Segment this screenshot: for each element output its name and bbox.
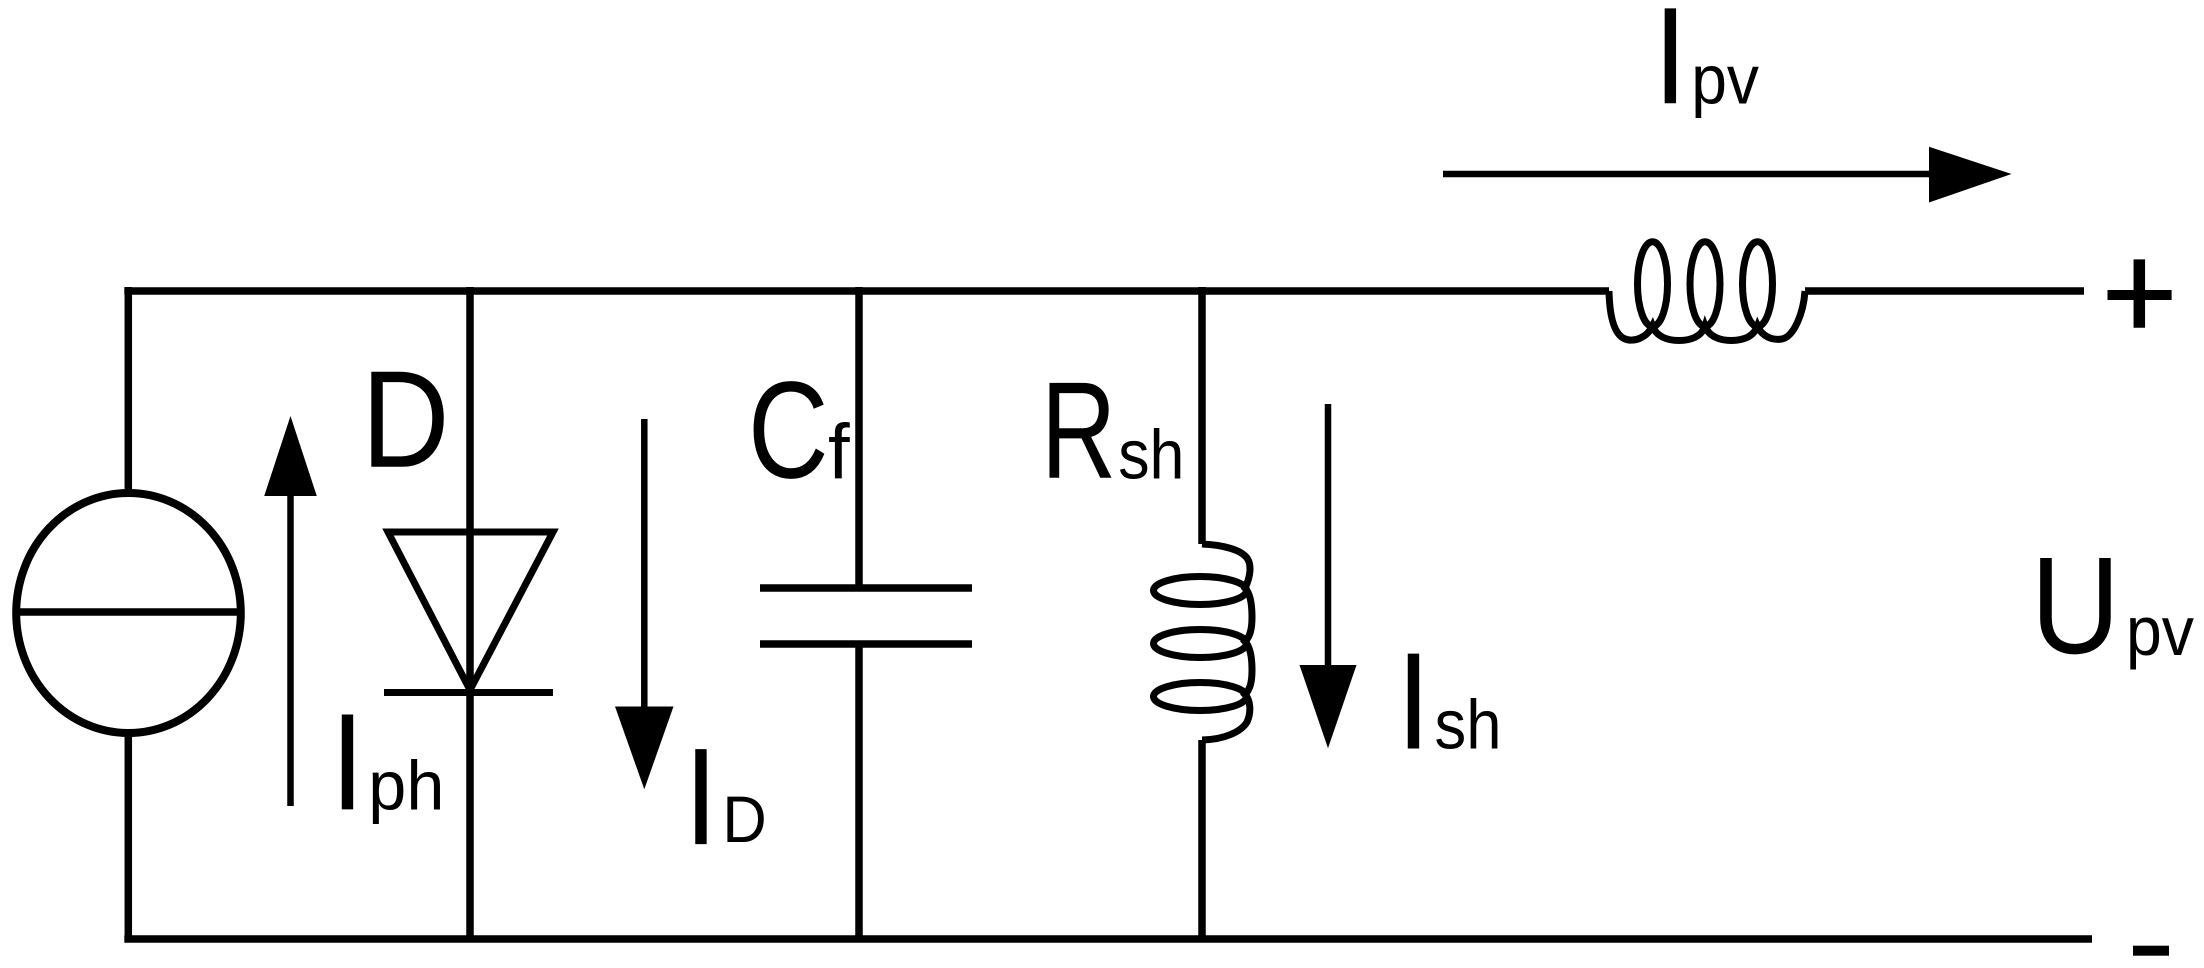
svg-text:D: D <box>722 782 766 857</box>
capacitor Cf top plate <box>760 584 972 592</box>
wire capacitor branch lower <box>855 644 863 939</box>
svg-text:I: I <box>331 684 365 839</box>
svg-text:sh: sh <box>1435 687 1502 765</box>
svg-text:I: I <box>1397 624 1431 779</box>
terminal minus sign <box>2133 946 2169 956</box>
wire capacitor branch upper <box>855 287 863 588</box>
svg-text:U: U <box>2031 528 2121 683</box>
arrow Iph shaft <box>287 494 294 806</box>
wire top rail left segment <box>124 287 1609 295</box>
wire top rail right segment <box>1805 287 2084 295</box>
wire bottom rail <box>124 935 2092 943</box>
label D <box>361 342 449 497</box>
diode D cathode bar <box>384 689 553 696</box>
label Ish <box>1397 624 1431 779</box>
current source Iph (circle with chord) <box>16 493 241 733</box>
label Iph <box>331 684 365 839</box>
label Ipv <box>1653 0 1687 133</box>
wire Rsh branch lower <box>1198 740 1206 939</box>
svg-text:I: I <box>684 719 718 874</box>
current source chord <box>13 608 244 616</box>
svg-text:f: f <box>828 408 850 496</box>
diode D triangle <box>388 532 553 690</box>
terminal plus sign <box>2108 259 2172 327</box>
arrow ID shaft <box>641 419 648 708</box>
resistor Rsh coil <box>1154 544 1253 740</box>
wire left branch lower <box>125 734 133 940</box>
label Upv <box>2031 528 2121 683</box>
arrow Iph head <box>264 416 317 496</box>
capacitor Cf bottom plate <box>760 640 972 648</box>
svg-text:C: C <box>748 352 829 507</box>
arrow Ish shaft <box>1325 404 1332 667</box>
svg-text:pv: pv <box>1691 41 1759 119</box>
wire diode branch <box>466 287 474 939</box>
label ID <box>684 719 718 874</box>
inductor L (series, top rail) <box>1609 242 1805 341</box>
wire Rsh branch upper <box>1198 287 1206 544</box>
svg-text:sh: sh <box>1118 416 1184 494</box>
svg-text:ph: ph <box>368 746 444 825</box>
label Cf <box>748 352 829 507</box>
svg-text:I: I <box>1653 0 1687 133</box>
arrow Ish head <box>1300 665 1357 748</box>
svg-text:R: R <box>1041 353 1116 507</box>
svg-text:pv: pv <box>2126 593 2194 671</box>
arrow Ipv head <box>1929 147 2012 203</box>
label Rsh <box>1041 353 1116 507</box>
arrow ID head <box>615 707 674 790</box>
svg-text:D: D <box>361 342 449 497</box>
arrow Ipv shaft <box>1443 171 1931 178</box>
wire left branch upper <box>125 287 133 493</box>
